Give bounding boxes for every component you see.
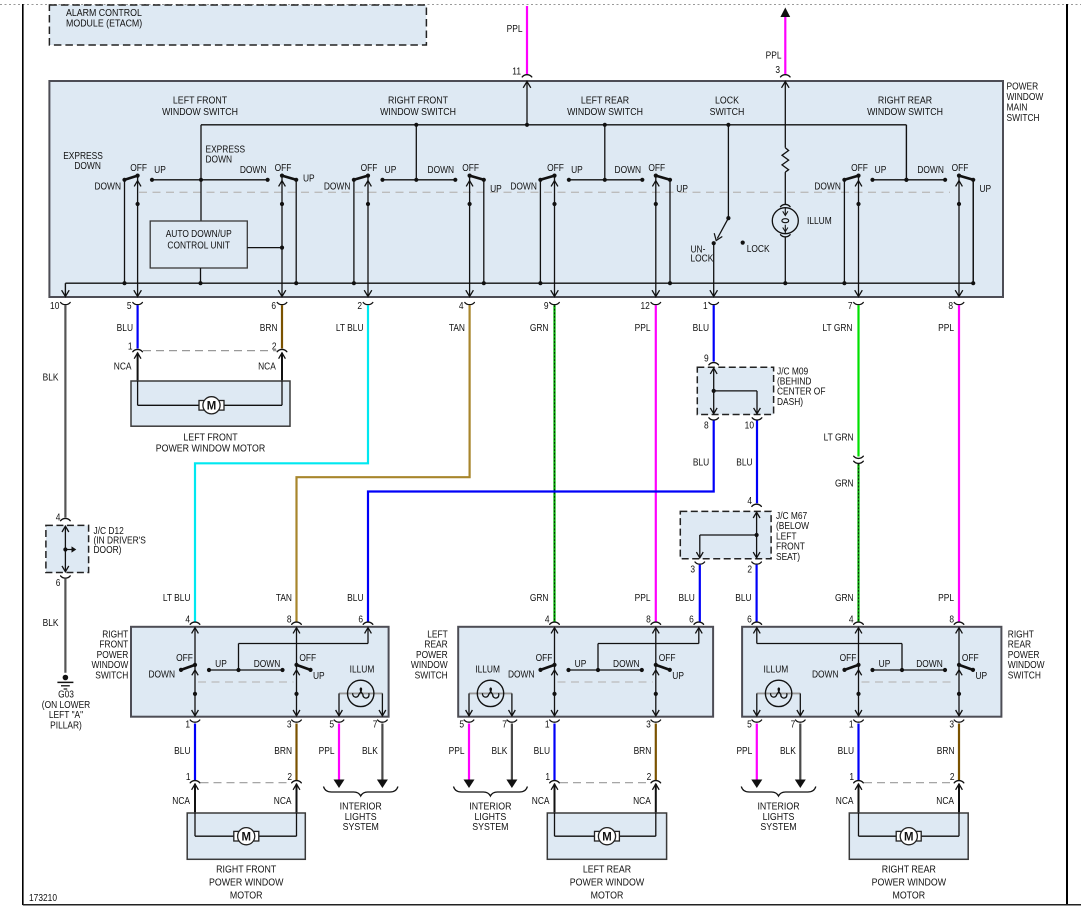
svg-text:NCA: NCA [936,795,954,806]
svg-text:MOTOR: MOTOR [591,890,624,902]
svg-text:POWER WINDOW MOTOR: POWER WINDOW MOTOR [156,443,265,455]
svg-text:BLK: BLK [780,745,797,756]
svg-text:7: 7 [791,719,796,730]
svg-text:M: M [904,830,913,843]
svg-text:CENTER OF: CENTER OF [777,386,826,397]
svg-text:4: 4 [56,512,61,523]
svg-text:DASH): DASH) [777,396,803,407]
svg-text:OFF: OFF [462,162,479,173]
svg-text:1: 1 [849,719,854,730]
svg-text:BRN: BRN [274,745,292,756]
svg-text:FRONT: FRONT [99,639,128,650]
svg-text:5: 5 [459,719,464,730]
svg-text:4: 4 [849,614,854,625]
svg-text:LOCK: LOCK [715,95,739,107]
svg-text:BLU: BLU [735,592,751,603]
svg-text:LT GRN: LT GRN [824,432,854,443]
svg-text:RIGHT REAR: RIGHT REAR [882,864,936,876]
svg-text:UP: UP [313,670,325,681]
svg-text:1: 1 [185,719,190,730]
svg-text:OFF: OFF [536,652,553,663]
svg-text:7: 7 [502,719,507,730]
svg-text:OFF: OFF [299,652,316,663]
svg-text:UP: UP [879,658,891,669]
svg-text:UP: UP [672,670,684,681]
svg-text:GRN: GRN [530,592,549,603]
svg-text:M: M [602,830,611,843]
svg-text:MOTOR: MOTOR [892,890,925,902]
svg-text:BLU: BLU [347,592,363,603]
svg-text:5: 5 [329,719,334,730]
svg-text:LEFT FRONT: LEFT FRONT [183,432,237,444]
svg-text:9: 9 [544,300,549,311]
svg-text:POWER: POWER [416,649,448,660]
svg-text:NCA: NCA [114,361,132,372]
svg-text:1: 1 [849,771,854,782]
svg-text:DOWN: DOWN [428,164,455,175]
svg-text:4: 4 [545,614,550,625]
svg-text:DOWN: DOWN [814,181,841,192]
svg-text:SYSTEM: SYSTEM [343,821,379,833]
svg-text:DOWN: DOWN [916,658,943,669]
svg-text:NCA: NCA [532,795,550,806]
svg-text:DOWN: DOWN [615,164,642,175]
svg-text:10: 10 [50,300,59,311]
svg-text:DOWN: DOWN [240,164,267,175]
svg-text:PPL: PPL [507,23,523,34]
svg-text:GRN: GRN [530,322,549,333]
svg-text:LOCK: LOCK [747,243,771,254]
svg-text:6: 6 [358,614,363,625]
svg-text:WINDOW: WINDOW [1008,659,1045,670]
svg-text:EXPRESS: EXPRESS [206,144,246,155]
svg-text:3: 3 [775,64,780,75]
svg-text:BLK: BLK [43,617,60,628]
svg-text:2: 2 [747,564,752,575]
svg-text:WINDOW SWITCH: WINDOW SWITCH [380,106,456,118]
svg-text:OFF: OFF [851,162,868,173]
svg-text:1: 1 [703,300,708,311]
svg-text:OFF: OFF [659,652,676,663]
svg-text:PPL: PPL [736,745,752,756]
svg-text:UP: UP [490,183,502,194]
svg-text:TAN: TAN [276,592,292,603]
svg-text:M: M [241,830,250,843]
svg-text:6: 6 [271,300,276,311]
svg-text:6: 6 [689,614,694,625]
svg-text:LEFT REAR: LEFT REAR [583,864,631,876]
svg-text:UP: UP [154,164,166,175]
svg-text:POWER: POWER [1008,649,1040,660]
svg-text:LT BLU: LT BLU [163,592,191,603]
svg-text:8: 8 [948,300,953,311]
svg-text:PPL: PPL [449,745,465,756]
svg-text:7: 7 [373,719,378,730]
svg-text:NCA: NCA [258,361,276,372]
svg-text:8: 8 [646,614,651,625]
svg-text:DOWN: DOWN [812,669,839,680]
svg-text:POWER: POWER [1007,81,1039,92]
svg-text:NCA: NCA [633,795,651,806]
svg-text:2: 2 [357,300,362,311]
svg-text:PPL: PPL [938,592,954,603]
svg-text:LEFT REAR: LEFT REAR [581,95,629,107]
svg-text:DOWN: DOWN [148,669,175,680]
svg-text:LT GRN: LT GRN [823,322,853,333]
svg-text:UP: UP [976,670,988,681]
svg-text:2: 2 [287,771,292,782]
svg-text:PPL: PPL [319,745,335,756]
svg-text:BLU: BLU [678,592,694,603]
svg-text:BLU: BLU [838,745,854,756]
svg-text:CONTROL UNIT: CONTROL UNIT [167,240,230,251]
svg-text:UP: UP [385,164,397,175]
svg-text:OFF: OFF [176,652,193,663]
svg-text:MOTOR: MOTOR [230,890,263,902]
svg-text:DOOR): DOOR) [94,544,122,555]
svg-text:9: 9 [704,353,709,364]
svg-text:7: 7 [848,300,853,311]
svg-text:M: M [207,399,216,412]
svg-text:OFF: OFF [130,162,147,173]
svg-text:PILLAR): PILLAR) [50,720,82,731]
svg-text:POWER: POWER [97,649,129,660]
svg-text:DOWN: DOWN [510,181,537,192]
svg-text:NCA: NCA [274,795,292,806]
svg-text:2: 2 [647,771,652,782]
svg-text:(ON LOWER: (ON LOWER [42,699,91,710]
svg-text:ILLUM: ILLUM [475,664,500,675]
svg-text:SWITCH: SWITCH [415,670,448,681]
svg-text:WINDOW: WINDOW [1007,91,1044,102]
svg-text:DOWN: DOWN [613,658,640,669]
svg-text:G03: G03 [58,689,74,700]
svg-text:DOWN: DOWN [254,658,281,669]
svg-text:SWITCH: SWITCH [95,670,128,681]
svg-text:PPL: PPL [635,322,651,333]
svg-text:DOWN: DOWN [324,181,351,192]
svg-text:PPL: PPL [766,50,782,61]
svg-text:NCA: NCA [172,795,190,806]
svg-text:6: 6 [747,614,752,625]
svg-text:OFF: OFF [952,162,969,173]
svg-text:SWITCH: SWITCH [1007,112,1040,123]
svg-text:3: 3 [287,719,292,730]
svg-text:J/C M67: J/C M67 [776,510,807,521]
svg-text:ILLUM: ILLUM [764,664,789,675]
svg-text:UP: UP [575,658,587,669]
svg-text:10: 10 [745,420,754,431]
svg-text:RIGHT FRONT: RIGHT FRONT [216,864,276,876]
svg-text:WINDOW: WINDOW [92,659,129,670]
svg-text:UP: UP [215,658,227,669]
svg-text:LEFT: LEFT [427,629,448,640]
svg-text:LEFT FRONT: LEFT FRONT [173,95,227,107]
svg-text:REAR: REAR [424,639,448,650]
svg-text:BLU: BLU [117,322,133,333]
svg-text:SWITCH: SWITCH [1008,670,1041,681]
svg-text:WINDOW SWITCH: WINDOW SWITCH [867,106,943,118]
svg-text:DOWN: DOWN [206,154,233,165]
svg-text:NCA: NCA [836,795,854,806]
svg-text:BRN: BRN [260,322,278,333]
svg-text:UP: UP [571,164,583,175]
svg-text:WINDOW: WINDOW [411,659,448,670]
svg-text:POWER WINDOW: POWER WINDOW [872,877,947,889]
svg-text:11: 11 [512,66,521,77]
svg-text:RIGHT: RIGHT [1008,629,1034,640]
svg-text:LT BLU: LT BLU [336,322,364,333]
svg-text:5: 5 [127,300,132,311]
svg-text:OFF: OFF [275,162,292,173]
svg-text:GRN: GRN [835,592,854,603]
svg-text:SEAT): SEAT) [776,551,800,562]
svg-text:1: 1 [545,719,550,730]
svg-text:3: 3 [690,564,695,575]
svg-text:BLK: BLK [362,745,379,756]
svg-text:1: 1 [128,341,133,352]
svg-text:POWER WINDOW: POWER WINDOW [209,877,284,889]
svg-text:OFF: OFF [648,162,665,173]
svg-text:12: 12 [640,300,649,311]
svg-text:BLU: BLU [534,745,550,756]
svg-text:FRONT: FRONT [776,541,805,552]
svg-text:BRN: BRN [937,745,955,756]
svg-text:6: 6 [56,577,61,588]
svg-text:OFF: OFF [361,162,378,173]
svg-text:173210: 173210 [29,892,57,903]
svg-text:2: 2 [950,771,955,782]
svg-text:OFF: OFF [840,652,857,663]
svg-text:SYSTEM: SYSTEM [472,821,508,833]
svg-text:4: 4 [747,495,752,506]
svg-text:GRN: GRN [835,478,854,489]
svg-text:WINDOW SWITCH: WINDOW SWITCH [567,106,643,118]
svg-text:MODULE (ETACM): MODULE (ETACM) [66,18,142,30]
svg-text:ILLUM: ILLUM [807,215,832,226]
svg-text:1: 1 [545,771,550,782]
svg-text:UP: UP [303,173,315,184]
svg-text:LOCK: LOCK [691,253,715,264]
svg-text:BLK: BLK [43,372,60,383]
svg-text:UP: UP [980,183,992,194]
svg-text:8: 8 [704,420,709,431]
svg-text:MAIN: MAIN [1007,102,1028,113]
svg-text:DOWN: DOWN [917,164,944,175]
svg-text:DOWN: DOWN [74,160,101,171]
svg-text:J/C M09: J/C M09 [777,366,808,377]
svg-text:TAN: TAN [449,322,465,333]
svg-text:OFF: OFF [962,652,979,663]
svg-text:3: 3 [646,719,651,730]
svg-text:3: 3 [949,719,954,730]
svg-text:BRN: BRN [634,745,652,756]
svg-text:OFF: OFF [547,162,564,173]
svg-text:RIGHT: RIGHT [102,629,128,640]
svg-text:BLU: BLU [174,745,190,756]
svg-text:4: 4 [459,300,464,311]
svg-text:BLK: BLK [492,745,509,756]
svg-text:WINDOW SWITCH: WINDOW SWITCH [162,106,238,118]
svg-text:DOWN: DOWN [508,669,535,680]
svg-text:LEFT: LEFT [776,531,797,542]
svg-text:REAR: REAR [1008,639,1032,650]
svg-text:8: 8 [287,614,292,625]
svg-text:PPL: PPL [635,592,651,603]
svg-text:UP: UP [676,183,688,194]
svg-text:BLU: BLU [693,457,709,468]
svg-text:5: 5 [747,719,752,730]
svg-text:AUTO DOWN/UP: AUTO DOWN/UP [166,228,232,239]
svg-text:ILLUM: ILLUM [350,664,375,675]
svg-text:RIGHT FRONT: RIGHT FRONT [388,95,448,107]
svg-text:4: 4 [185,614,190,625]
svg-text:1: 1 [186,771,191,782]
svg-text:SYSTEM: SYSTEM [760,821,796,833]
svg-text:(BELOW: (BELOW [776,521,809,532]
svg-text:8: 8 [949,614,954,625]
svg-text:BLU: BLU [693,322,709,333]
svg-text:BLU: BLU [736,457,752,468]
svg-text:RIGHT REAR: RIGHT REAR [878,95,932,107]
svg-text:POWER WINDOW: POWER WINDOW [570,877,645,889]
svg-text:UP: UP [875,164,887,175]
svg-text:PPL: PPL [938,322,954,333]
svg-text:DOWN: DOWN [94,181,121,192]
svg-text:LEFT "A": LEFT "A" [49,709,83,720]
svg-text:SWITCH: SWITCH [710,106,745,118]
svg-text:(BEHIND: (BEHIND [777,376,812,387]
